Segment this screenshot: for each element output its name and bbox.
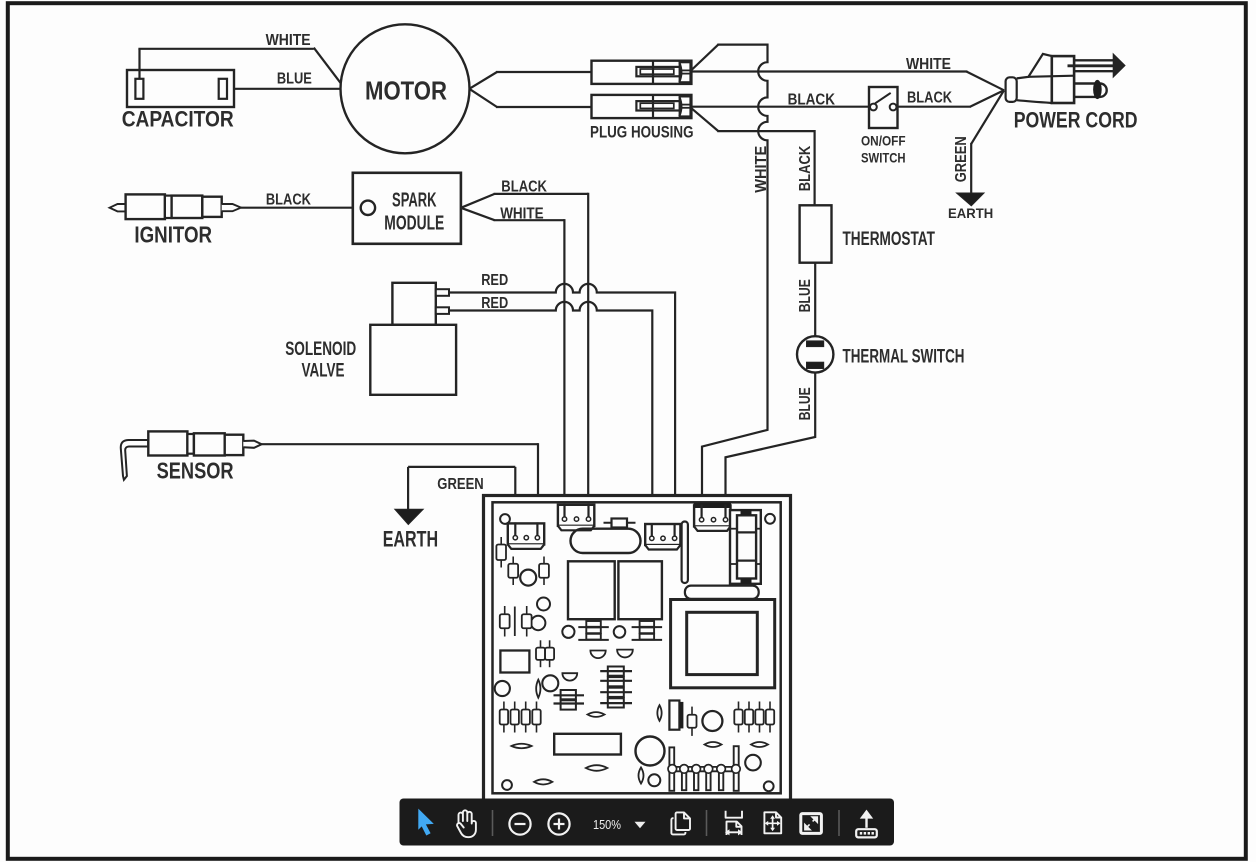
svg-text:BLUE: BLUE bbox=[277, 71, 312, 88]
motor M1 bbox=[341, 24, 470, 153]
sensor collar bbox=[187, 434, 194, 454]
wire black vertical to board bbox=[587, 193, 589, 512]
switch contact right bbox=[890, 104, 897, 111]
power cord plug bbox=[1006, 77, 1017, 102]
wire white diagonal to power cord bbox=[966, 72, 1004, 91]
pcb lead bbox=[514, 607, 516, 637]
svg-text:THERMAL SWITCH: THERMAL SWITCH bbox=[843, 346, 965, 367]
toolbar hand tool bbox=[457, 810, 476, 837]
pcb lens pad bbox=[534, 779, 552, 784]
solenoid valve coil bbox=[392, 283, 435, 325]
thermal switch TS1 bbox=[797, 336, 833, 372]
pcb jumper stick bbox=[682, 522, 688, 584]
pcb capacitor stack C2 bbox=[640, 621, 655, 627]
toolbar zoom in bbox=[548, 813, 569, 834]
wire white vertical to board bbox=[563, 219, 565, 512]
wire white capacitor-up bbox=[138, 49, 140, 79]
capacitor terminal right bbox=[219, 79, 227, 99]
pcb lens pad bbox=[657, 705, 661, 721]
ignitor terminal tip bbox=[222, 204, 241, 211]
svg-text:RED: RED bbox=[481, 272, 508, 289]
pcb pad circle bbox=[648, 774, 660, 786]
pcb component box bbox=[500, 651, 529, 673]
pcb board inner bbox=[493, 502, 781, 793]
wire white branch diagonal up bbox=[692, 45, 719, 70]
svg-text:MOTOR: MOTOR bbox=[365, 76, 447, 106]
pdf viewer toolbar bbox=[400, 799, 895, 846]
spark module input terminal bbox=[361, 201, 375, 215]
svg-text:BLACK: BLACK bbox=[907, 90, 952, 107]
plug housing connector 2 bbox=[592, 95, 692, 118]
pcb mounting hole bottom-right bbox=[764, 781, 774, 791]
on/off switch S1 bbox=[869, 87, 898, 128]
wire sensor vertical to board bbox=[537, 443, 539, 530]
pcb resistor pair horizontal bbox=[561, 690, 576, 699]
pcb connector CN4 bbox=[694, 505, 730, 526]
pcb lens pad bbox=[751, 742, 768, 747]
pcb pin header J1 bbox=[668, 766, 740, 768]
pcb pad circle bbox=[562, 626, 574, 638]
pcb transformer T1 bbox=[685, 586, 759, 599]
wire black switch to power cord bbox=[897, 106, 971, 108]
svg-text:BLACK: BLACK bbox=[501, 178, 547, 195]
wire white branch horizontal bbox=[717, 43, 767, 45]
pcb diode D3 bbox=[562, 673, 577, 680]
pcb relay K2 bbox=[618, 561, 662, 619]
wire blue thermostat to thermal switch bbox=[814, 263, 816, 337]
svg-text:WHITE: WHITE bbox=[266, 32, 311, 49]
toolbar actual size icon bbox=[764, 812, 781, 833]
wire black branch to thermostat bbox=[717, 130, 814, 132]
wire black branch diagonal down bbox=[692, 108, 719, 131]
wire black plug to switch bbox=[691, 106, 869, 108]
wire black ignitor to spark module bbox=[241, 207, 368, 209]
pcb mounting hole bottom-left bbox=[502, 780, 512, 790]
pcb resistor R10 bbox=[525, 702, 527, 733]
toolbar zoom out bbox=[509, 813, 530, 834]
svg-text:IGNITOR: IGNITOR bbox=[134, 221, 212, 247]
pcb pad circle bbox=[614, 626, 626, 638]
pcb resistor bbox=[748, 702, 750, 733]
svg-text:MODULE: MODULE bbox=[384, 212, 444, 234]
pcb lens pad bbox=[588, 712, 605, 717]
wire black vertical to thermostat bbox=[813, 130, 815, 205]
pcb diode D2 bbox=[617, 650, 633, 658]
ignitor body 3 bbox=[202, 197, 221, 217]
sensor probe bbox=[121, 440, 149, 480]
pcb lens pad bbox=[586, 765, 608, 771]
pcb pad circle bbox=[531, 616, 545, 630]
pcb lens pad bbox=[536, 680, 540, 698]
plug housing connector 1 bbox=[592, 61, 692, 84]
pcb stadium component bbox=[571, 529, 641, 553]
pcb pad circle bbox=[520, 570, 536, 586]
pcb board outer bbox=[484, 496, 791, 804]
svg-text:SENSOR: SENSOR bbox=[157, 458, 234, 484]
svg-text:WHITE: WHITE bbox=[906, 56, 951, 73]
pcb relay K3 block bbox=[730, 510, 761, 584]
pcb capacitor stack C1 bbox=[586, 621, 601, 627]
power cord prongs top bbox=[1074, 59, 1113, 61]
pcb lens pad bbox=[512, 744, 532, 749]
pcb relay K1 bbox=[568, 561, 615, 619]
thermostat TH1 bbox=[800, 205, 832, 262]
pcb lens pad bbox=[705, 742, 722, 747]
svg-text:BLACK: BLACK bbox=[266, 191, 311, 208]
pcb resistor R8 bbox=[503, 702, 505, 733]
svg-text:EARTH: EARTH bbox=[948, 205, 993, 221]
svg-text:THERMOSTAT: THERMOSTAT bbox=[843, 229, 936, 250]
solenoid valve body bbox=[370, 325, 456, 395]
pcb connector CN2 bbox=[558, 505, 594, 526]
toolbar separator bbox=[706, 810, 708, 836]
pcb mounting hole top-left bbox=[500, 514, 510, 524]
switch lever bbox=[875, 93, 891, 104]
svg-text:EARTH: EARTH bbox=[383, 526, 438, 551]
pcb resistor R11 bbox=[536, 702, 538, 733]
wire green horizontal bbox=[408, 466, 515, 468]
pcb resistor R5 bbox=[526, 606, 528, 637]
sensor body 3 bbox=[225, 435, 244, 455]
wire black spark module horizontal bbox=[494, 193, 589, 195]
sensor body 1 bbox=[148, 431, 187, 455]
pcb pad circle bbox=[745, 755, 761, 771]
wire red 1 with crossover hops bbox=[449, 284, 675, 530]
thermal switch contact bottom bbox=[807, 362, 824, 368]
wire white horizontal to motor bbox=[138, 48, 313, 50]
wire white to power cord bbox=[691, 70, 967, 72]
wire motor to plug bottom bbox=[469, 89, 497, 107]
toolbar dropdown caret bbox=[635, 822, 646, 828]
wire sensor horizontal bbox=[262, 443, 538, 445]
svg-text:WHITE: WHITE bbox=[500, 206, 544, 223]
svg-text:SPARK: SPARK bbox=[392, 189, 437, 211]
toolbar expand icon bbox=[801, 814, 822, 834]
wire red 2 with crossover hops bbox=[449, 302, 652, 530]
pcb resistor bbox=[769, 702, 771, 733]
wire white diagonal into motor bbox=[314, 48, 342, 84]
wire blue to plug housing 2 bbox=[496, 106, 592, 108]
pcb diode D1 bbox=[590, 651, 605, 659]
pcb component tall pair bbox=[669, 701, 679, 730]
power cord prong bottom bbox=[1074, 82, 1100, 84]
pcb resistor bbox=[759, 702, 761, 733]
ignitor body 2 bbox=[172, 196, 203, 218]
wire green vertical bbox=[970, 143, 972, 194]
wire green vertical down bbox=[407, 467, 409, 509]
solenoid pin 1 bbox=[436, 289, 449, 296]
wire black diagonal to power cord bbox=[970, 90, 1004, 106]
svg-text:SWITCH: SWITCH bbox=[861, 150, 906, 165]
svg-text:POWER CORD: POWER CORD bbox=[1014, 108, 1138, 133]
wire white spark module diagonal bbox=[461, 208, 495, 220]
switch contact left bbox=[870, 104, 877, 111]
toolbar copy pages icon bbox=[671, 818, 685, 834]
svg-text:CAPACITOR: CAPACITOR bbox=[122, 107, 234, 132]
svg-text:150%: 150% bbox=[593, 817, 621, 832]
thermal switch contact top bbox=[807, 341, 824, 347]
wire green from board up bbox=[514, 467, 516, 532]
svg-text:BLACK: BLACK bbox=[797, 145, 814, 191]
pcb fuse F1 bbox=[604, 522, 636, 524]
svg-text:BLUE: BLUE bbox=[797, 387, 814, 420]
wire white to plug housing 1 bbox=[496, 71, 592, 73]
pcb resistor R4 bbox=[504, 606, 506, 637]
wire blue thermal switch to board bbox=[726, 373, 816, 516]
svg-text:WHITE: WHITE bbox=[753, 146, 770, 193]
sensor body 2 bbox=[194, 433, 225, 455]
wire blue capacitor to motor bbox=[234, 88, 341, 90]
pcb resistor R1 bbox=[500, 537, 502, 568]
svg-text:ON/OFF: ON/OFF bbox=[861, 134, 906, 149]
pcb connector CN3 bbox=[645, 524, 680, 545]
toolbar separator bbox=[492, 810, 494, 836]
svg-text:BLUE: BLUE bbox=[797, 279, 814, 312]
wire motor to plug top bbox=[469, 72, 497, 89]
pcb label box bbox=[554, 734, 621, 755]
ignitor tip left bbox=[110, 204, 127, 211]
svg-text:VALVE: VALVE bbox=[302, 360, 345, 381]
pcb resistor RC bbox=[691, 707, 693, 736]
solenoid pin 2 bbox=[436, 307, 449, 314]
toolbar fit width icon bbox=[726, 811, 742, 818]
pcb pad circle bbox=[537, 598, 550, 611]
pcb resistor R6 bbox=[540, 640, 542, 667]
ground earth symbol left bbox=[395, 509, 423, 524]
toolbar cursor tool (active) bbox=[418, 809, 434, 836]
pcb connector CN1 bbox=[508, 523, 544, 544]
svg-text:BLACK: BLACK bbox=[788, 92, 836, 109]
sensor terminal tip bbox=[243, 441, 261, 448]
svg-text:PLUG HOUSING: PLUG HOUSING bbox=[590, 123, 694, 142]
toolbar separator bbox=[838, 810, 840, 836]
svg-text:GREEN: GREEN bbox=[437, 476, 483, 493]
ground earth symbol right bbox=[957, 193, 985, 206]
capacitor terminal left bbox=[135, 79, 143, 99]
svg-text:RED: RED bbox=[481, 295, 508, 312]
pcb lens pad bbox=[639, 768, 644, 784]
ignitor body 1 bbox=[126, 194, 165, 219]
wire black spark module diagonal bbox=[461, 194, 495, 208]
wire green diagonal bbox=[971, 90, 1004, 144]
ignitor collar bbox=[165, 196, 172, 218]
pcb pad circle bbox=[702, 711, 722, 731]
pcb resistor R7 bbox=[549, 640, 551, 667]
pcb resistor R2 bbox=[512, 557, 514, 586]
pcb resistor R9 bbox=[514, 702, 516, 733]
pcb resistor R3 bbox=[543, 557, 545, 586]
spark module U1 bbox=[353, 173, 461, 244]
pcb resistor bbox=[738, 702, 740, 733]
toolbar upload icon bbox=[865, 815, 867, 828]
wire white spark module horizontal bbox=[494, 219, 565, 221]
pcb pad circle bbox=[495, 681, 510, 696]
svg-text:GREEN: GREEN bbox=[953, 136, 970, 182]
pcb pad circle bbox=[542, 675, 558, 691]
pcb mounting hole top-right bbox=[765, 514, 775, 524]
capacitor body bbox=[127, 70, 234, 107]
wire white main vertical with crossover hops bbox=[702, 44, 768, 517]
pcb large pad bbox=[636, 737, 665, 766]
svg-text:SOLENOID: SOLENOID bbox=[285, 339, 356, 360]
pcb capacitor stack C3 bbox=[608, 667, 624, 676]
